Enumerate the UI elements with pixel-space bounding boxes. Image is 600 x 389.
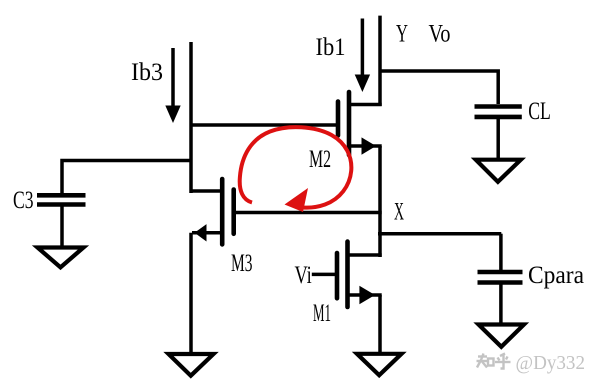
svg-text:Ib1: Ib1 [316, 34, 346, 61]
wire: Y node to CL [380, 71, 498, 104]
watermark zhihu logo glyphs [477, 354, 511, 369]
wire: CL lower stem [496, 117, 500, 160]
capacitor C3 [37, 195, 86, 204]
wire: C3 to trunk [62, 161, 192, 195]
svg-text:X: X [394, 199, 404, 226]
ground under M3 [169, 354, 214, 376]
svg-text:C3: C3 [13, 187, 34, 214]
M1 channel bar [345, 242, 350, 307]
capacitor CL [475, 107, 522, 117]
transistor M3 [191, 179, 234, 244]
M2 channel bar [347, 92, 352, 155]
M3 gate bar [231, 190, 236, 234]
svg-text:@Dy332: @Dy332 [516, 352, 586, 374]
M1 gate bar [335, 253, 340, 298]
svg-text:CL: CL [528, 98, 551, 125]
ground under CL [476, 160, 521, 182]
red feedback loop arrow [240, 127, 352, 212]
svg-text:M1: M1 [313, 300, 331, 327]
wire: Cpara upper stem [499, 234, 503, 270]
transistor M1 [312, 242, 382, 307]
wire: X branch to Cpara [378, 232, 501, 236]
wire: C3 lower stem [60, 205, 64, 247]
wire: M2 gate wire [191, 123, 336, 127]
svg-text:Vo: Vo [429, 21, 451, 48]
M2 gate bar [336, 102, 341, 136]
ground under C3 [38, 248, 84, 268]
wire: left trunk node A vertical [189, 42, 193, 193]
M2 drain wire [350, 103, 382, 107]
ground under Cpara [479, 325, 525, 347]
M3 source wire with arrow [192, 231, 220, 235]
wire: M3 gate to node X [236, 211, 382, 215]
ground under M1 [357, 354, 402, 375]
wire: M3 source stem [189, 233, 193, 353]
wire: Y trunk vertical [378, 16, 382, 106]
capacitor Cpara [478, 272, 523, 283]
current source Ib3 arrow [165, 48, 180, 123]
current source Ib1 arrow [355, 19, 370, 93]
svg-text:Cpara: Cpara [528, 262, 584, 289]
wire: Cpara lower stem [499, 283, 503, 325]
wire: X trunk vertical [378, 146, 382, 257]
svg-text:Vi: Vi [295, 262, 312, 289]
wire: M1 source stem [378, 295, 382, 353]
M1 gate wire [312, 273, 335, 277]
svg-text:Ib3: Ib3 [131, 59, 163, 86]
M2 source wire with arrow [350, 144, 382, 148]
transistor M2 [338, 92, 382, 155]
M1 source wire with arrow [349, 293, 382, 297]
svg-text:Y: Y [396, 21, 408, 48]
M3 channel bar [220, 179, 225, 244]
svg-text:M3: M3 [231, 250, 253, 277]
M3 drain wire [191, 189, 221, 193]
svg-text:M2: M2 [309, 146, 331, 173]
M1 drain wire [349, 253, 382, 257]
